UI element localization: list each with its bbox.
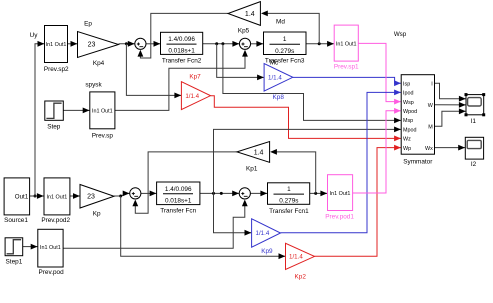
svg-text:Kp: Kp <box>93 211 101 218</box>
wire node E up to gain Md input <box>267 13 319 43</box>
svg-text:Transfer Fcn2: Transfer Fcn2 <box>162 58 202 65</box>
wire sum S1 to Transfer Fcn2 <box>146 43 160 45</box>
svg-text:0.279s: 0.279s <box>279 198 298 205</box>
svg-text:I2: I2 <box>471 161 477 168</box>
subsystem Prev.pod <box>38 229 63 267</box>
sum S2 <box>239 38 250 49</box>
transfer-fcn Transfer Fcn <box>157 182 200 205</box>
wire Symmator I output to scope I1 input 1 <box>435 83 466 98</box>
node F junction to Kp2 <box>119 195 122 198</box>
wire Prev.pod1 output to Symmator Wpod input <box>353 111 401 193</box>
svg-text:1.4: 1.4 <box>254 149 264 156</box>
subsystem Prev.sp <box>90 92 115 129</box>
node C junction to Kp8 <box>215 42 218 45</box>
sum S1 <box>135 38 146 49</box>
svg-text:W: W <box>428 103 434 109</box>
svg-text:Source1: Source1 <box>4 217 28 224</box>
node I junction to Kp1 feedback <box>314 192 317 195</box>
wire sum S4 to Transfer Fcn1 <box>250 192 267 194</box>
svg-text:Prev.sp2: Prev.sp2 <box>44 66 69 73</box>
wire gain Kp8 output to Symmator Isp input <box>293 77 401 83</box>
svg-text:1/1.4: 1/1.4 <box>185 93 199 100</box>
wire Transfer Fcn3 output to Prev.sp1 <box>306 43 334 45</box>
wire Transfer Fcn2 output to sum S2 <box>203 43 240 45</box>
svg-text:In1 Out1: In1 Out1 <box>46 42 67 48</box>
svg-text:Prev.sp1: Prev.sp1 <box>334 64 359 71</box>
wire Uy riser from Source1 node up to Prev.sp2 input <box>35 44 44 196</box>
svg-text:0.279s: 0.279s <box>275 48 294 55</box>
gain Kp <box>80 185 114 209</box>
wire node B down to gain Kp7 input <box>126 44 181 96</box>
svg-text:Out1: Out1 <box>15 193 29 200</box>
gain Kp1 <box>237 142 270 163</box>
wire Step1 output to Prev.pod input <box>23 246 38 248</box>
svg-text:0.018s+1: 0.018s+1 <box>168 48 195 55</box>
subsystem Prev.sp1 <box>334 25 358 61</box>
svg-text:Uy: Uy <box>30 32 39 39</box>
wire Step output to Prev.sp input <box>63 109 89 111</box>
svg-text:1/1.4: 1/1.4 <box>256 230 270 237</box>
wire Prev.sp1 output to Symmator Wsp input <box>358 43 401 101</box>
svg-text:M: M <box>428 124 433 130</box>
source Step1 <box>5 238 23 256</box>
wire gain Kp output to sum S3 <box>114 193 130 196</box>
svg-text:1/1.4: 1/1.4 <box>289 254 303 261</box>
wire Symmator W output to scope I1 input 2 <box>435 104 466 106</box>
wire Prev.sp output to sum S2 minus input <box>115 55 245 110</box>
wire sum S3 to Transfer Fcn <box>141 192 156 194</box>
svg-text:1.4/0.096: 1.4/0.096 <box>168 36 195 43</box>
wire Transfer Fcn1 output to Prev.pod1 <box>310 192 328 194</box>
svg-text:In1 Out1: In1 Out1 <box>47 194 68 200</box>
wire gain Kp2 output to Symmator Wp input <box>315 148 401 257</box>
svg-text:Kp2: Kp2 <box>295 273 307 280</box>
wire node D down and right to Symmator Msp input <box>223 44 401 121</box>
subsystem Prev.pod1 <box>328 175 353 211</box>
svg-text:1.4/0.096: 1.4/0.096 <box>165 186 192 193</box>
svg-text:Kp5: Kp5 <box>238 28 250 35</box>
svg-text:Ep: Ep <box>84 21 92 28</box>
wire Prev.pod2 output to gain Kp <box>70 195 80 197</box>
svg-text:1: 1 <box>287 186 291 193</box>
svg-text:I: I <box>431 82 433 88</box>
wire gain Kp9 output to Symmator Ipod input <box>281 92 401 232</box>
svg-text:Prev.pod1: Prev.pod1 <box>325 214 354 221</box>
svg-text:Wsp: Wsp <box>394 31 407 38</box>
wire gain Kp7 output to Symmator Wz input <box>211 96 401 139</box>
svg-text:Wx: Wx <box>425 146 433 152</box>
gain Md <box>228 2 260 26</box>
svg-text:Msp: Msp <box>403 118 413 124</box>
svg-text:Kp7: Kp7 <box>189 74 201 81</box>
node G junction to Kp9 and Mpod <box>212 192 215 195</box>
svg-text:Transfer Fcn1: Transfer Fcn1 <box>269 208 309 215</box>
transfer-fcn Transfer Fcn2 <box>161 32 203 54</box>
gain Kp9 <box>252 219 281 247</box>
wire node I up to gain Kp1 input <box>276 152 315 194</box>
svg-text:Symmator: Symmator <box>403 158 433 165</box>
transfer-fcn Transfer Fcn3 <box>264 32 307 55</box>
node E junction to Md feedback <box>318 42 321 45</box>
wire Prev.pod output to sum S4 minus input <box>63 205 245 248</box>
svg-text:Mc: Mc <box>270 60 279 67</box>
scope I2 <box>465 137 483 159</box>
wire gain Md output to sum S1 minus input <box>140 13 228 58</box>
scope I1 <box>466 95 484 115</box>
svg-text:23: 23 <box>88 42 96 49</box>
wire gain Kp4 output to sum S1 <box>119 43 135 45</box>
source Step <box>45 101 64 120</box>
wire gain Kp1 output to sum S3 minus input <box>135 152 237 213</box>
svg-text:Wp: Wp <box>403 146 411 152</box>
wire Symmator M output to scope I1 input 3 <box>435 111 466 126</box>
svg-text:Kp9: Kp9 <box>261 248 273 255</box>
node H junction <box>220 192 223 195</box>
gain Kp2 <box>286 243 315 269</box>
gain Kp8 <box>264 64 293 92</box>
wire node C down to gain Kp8 input <box>217 44 264 78</box>
svg-text:Md: Md <box>276 19 285 26</box>
wire Source1 output to Prev.pod2 input <box>30 195 44 197</box>
svg-text:Step: Step <box>47 124 61 131</box>
svg-text:Step1: Step1 <box>6 258 23 265</box>
wire sum S2 to Transfer Fcn3 <box>251 43 264 45</box>
wire node G down to gain Kp9 input <box>214 193 252 232</box>
svg-text:Kp8: Kp8 <box>273 94 285 101</box>
svg-text:Kp4: Kp4 <box>93 60 105 67</box>
gain Kp4 <box>78 32 119 58</box>
node A junction Source1/Uy <box>34 195 37 198</box>
wire Prev.sp2 output to gain Kp4 <box>68 43 78 45</box>
svg-text:I1: I1 <box>471 118 477 125</box>
svg-text:In1 Out1: In1 Out1 <box>330 191 351 197</box>
subsystem Symmator <box>401 75 434 155</box>
sum S3 <box>130 188 141 199</box>
svg-text:In1 Out1: In1 Out1 <box>40 245 61 251</box>
svg-text:23: 23 <box>87 194 95 201</box>
wire node G up and right to Symmator Mpod input <box>214 129 401 193</box>
svg-text:1/1.4: 1/1.4 <box>268 75 282 82</box>
subsystem Prev.sp2 <box>45 26 68 63</box>
svg-text:Ipod: Ipod <box>403 91 414 97</box>
node D junction to Msp <box>221 42 224 45</box>
svg-text:In1 Out1: In1 Out1 <box>336 42 357 48</box>
svg-text:Prev.pod2: Prev.pod2 <box>41 217 70 224</box>
svg-text:Wpod: Wpod <box>403 109 417 115</box>
transfer-fcn Transfer Fcn1 <box>268 183 310 205</box>
gain Kp7 <box>181 82 210 110</box>
svg-text:Isp: Isp <box>403 81 410 87</box>
svg-text:0.018s+1: 0.018s+1 <box>165 197 192 204</box>
svg-text:Wz: Wz <box>403 137 411 143</box>
svg-text:Prev.sp: Prev.sp <box>92 132 114 139</box>
svg-text:Transfer Fcn: Transfer Fcn <box>160 207 196 214</box>
svg-text:Mpod: Mpod <box>403 127 417 133</box>
sum S4 <box>239 188 250 199</box>
svg-text:spysk: spysk <box>85 82 102 89</box>
svg-text:In1 Out1: In1 Out1 <box>92 109 113 115</box>
wire Symmator Wx output to scope I2 input <box>435 147 466 149</box>
wire node F down to gain Kp2 input <box>121 196 286 256</box>
svg-text:1: 1 <box>283 36 287 43</box>
subsystem Prev.pod2 <box>44 178 70 215</box>
wire Transfer Fcn output to sum S4 <box>200 192 239 194</box>
svg-text:Wsp: Wsp <box>403 100 414 106</box>
source Source1 <box>4 178 30 215</box>
svg-text:Kp1: Kp1 <box>246 166 258 173</box>
svg-text:1.4: 1.4 <box>245 11 255 18</box>
svg-text:Prev.pod: Prev.pod <box>39 269 65 276</box>
node B junction to Kp7 <box>125 42 128 45</box>
